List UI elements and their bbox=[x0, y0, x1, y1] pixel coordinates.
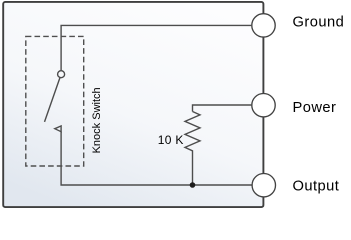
svg-text:10 K: 10 K bbox=[158, 133, 184, 147]
port Output bbox=[252, 174, 275, 197]
wire resistor-to-power bbox=[193, 105, 252, 112]
svg-text:Power: Power bbox=[293, 100, 337, 116]
knock switch enclosure bbox=[26, 36, 84, 166]
wire switch-to-output bbox=[61, 132, 252, 185]
junction node bbox=[190, 182, 196, 188]
switch S1 bbox=[45, 71, 65, 132]
port Power bbox=[252, 94, 275, 117]
wire switch-to-ground bbox=[61, 25, 251, 70]
wire resistor-to-junction bbox=[192, 154, 194, 186]
module body bbox=[3, 2, 263, 207]
resistor R1 10 K bbox=[185, 112, 200, 154]
svg-text:Ground: Ground bbox=[293, 15, 345, 31]
port Ground bbox=[252, 14, 275, 37]
svg-text:Output: Output bbox=[293, 179, 340, 195]
svg-text:Knock Switch: Knock Switch bbox=[91, 87, 103, 153]
